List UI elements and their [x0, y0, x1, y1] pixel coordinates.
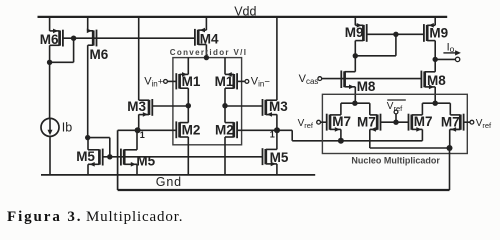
svg-text:M4: M4: [200, 31, 219, 46]
svg-text:Gnd: Gnd: [156, 175, 182, 189]
svg-text:Nucleo Multiplicador: Nucleo Multiplicador: [351, 155, 440, 165]
svg-text:Io: Io: [447, 41, 455, 54]
svg-text:M2: M2: [182, 122, 201, 137]
svg-text:M6: M6: [40, 32, 59, 47]
svg-text:M7: M7: [332, 114, 351, 129]
svg-text:M8: M8: [357, 79, 376, 94]
svg-text:Vdd: Vdd: [234, 5, 256, 19]
svg-text:M2: M2: [215, 122, 234, 137]
svg-text:Ib: Ib: [62, 120, 72, 134]
svg-text:M5: M5: [76, 149, 95, 164]
svg-text:M5: M5: [270, 150, 289, 165]
svg-text:M7: M7: [357, 115, 376, 130]
svg-text:M1: M1: [215, 74, 234, 89]
svg-text:Multiplicador.: Multiplicador.: [86, 209, 183, 225]
svg-text:1: 1: [140, 130, 145, 140]
svg-text:M1: M1: [182, 74, 201, 89]
svg-text:M9: M9: [429, 26, 448, 41]
svg-text:M7: M7: [414, 114, 433, 129]
svg-text:M6: M6: [90, 47, 109, 62]
svg-text:M3: M3: [269, 99, 288, 114]
svg-text:Convertidor V/I: Convertidor V/I: [170, 48, 248, 57]
svg-text:M3: M3: [127, 99, 146, 114]
svg-text:1: 1: [270, 129, 275, 139]
svg-text:M8: M8: [427, 73, 446, 88]
svg-text:M7: M7: [441, 115, 460, 130]
svg-text:M9: M9: [345, 25, 364, 40]
svg-text:Figura 3.: Figura 3.: [7, 209, 82, 225]
svg-text:M5: M5: [136, 153, 155, 168]
